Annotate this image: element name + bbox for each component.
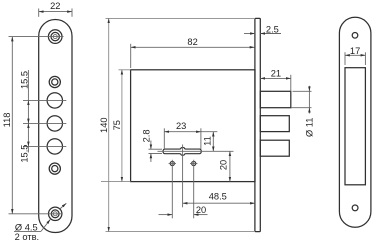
hole H3 big (47, 93, 62, 108)
dimension 21 (260, 68, 291, 91)
svg-text:2 отв.: 2 отв. (15, 232, 39, 242)
hole H1 screw hole top (48, 30, 62, 44)
hole H4 big (47, 116, 62, 131)
bolt 3 (260, 140, 289, 156)
svg-text:11: 11 (202, 136, 212, 146)
spindle bar (163, 147, 201, 155)
dimension 82 (131, 37, 255, 68)
strike plate bottom hole (352, 205, 358, 211)
dimension 17 (345, 46, 365, 65)
svg-text:Ø 11: Ø 11 (305, 118, 315, 137)
bolt 1 (260, 91, 291, 107)
svg-text:140: 140 (99, 117, 109, 133)
hole H6 small (49, 163, 60, 174)
leader diameter 4.5 (14, 203, 66, 242)
dimension 20 bottom (159, 205, 208, 215)
centerline H5 (23, 145, 66, 147)
centerline H4 (23, 122, 66, 124)
svg-text:23: 23 (176, 121, 186, 131)
dimension 15.5 upper (20, 70, 30, 123)
dimension 48.5 (183, 192, 255, 204)
dimension 2.5 (244, 24, 281, 34)
bolt 2 (260, 116, 289, 132)
screw circle right (190, 160, 197, 219)
svg-text:118: 118 (2, 113, 12, 128)
svg-text:2.8: 2.8 (142, 129, 152, 142)
bar vertical centerline (182, 145, 184, 208)
svg-text:21: 21 (271, 68, 281, 78)
dimension 2.8 (142, 129, 162, 162)
svg-text:20: 20 (219, 160, 229, 170)
svg-text:20: 20 (196, 205, 206, 215)
screw circle left (169, 160, 176, 219)
svg-text:17: 17 (350, 46, 360, 56)
hole H7 screw hole bottom (49, 207, 62, 220)
dimension 23 (164, 121, 217, 149)
dimension 140 (99, 18, 254, 231)
centerline H1 / 118 top extension (9, 36, 64, 38)
centerline H7 / 118 bottom extension (9, 213, 63, 215)
dimension 15.5 lower (20, 123, 30, 162)
hole H5 big (47, 139, 62, 154)
svg-text:75: 75 (112, 120, 122, 130)
lock body outline (131, 70, 255, 182)
svg-text:48.5: 48.5 (209, 192, 227, 202)
svg-text:2.5: 2.5 (266, 24, 279, 34)
dimension 11 (202, 132, 213, 152)
svg-text:Ø 4.5: Ø 4.5 (15, 222, 38, 232)
dimension 20 vertical (219, 151, 230, 181)
dimension diameter 11 (291, 86, 315, 137)
strike plate slot (345, 68, 365, 185)
svg-text:22: 22 (50, 1, 60, 11)
centerline H3 (23, 99, 66, 101)
dimension 118 (2, 37, 12, 214)
hole H2 small (49, 76, 60, 87)
strike plate outline (339, 17, 371, 227)
svg-text:15.5: 15.5 (20, 145, 30, 163)
dimension 22 (39, 1, 72, 17)
bar horizontal centerline (158, 150, 234, 152)
faceplate edge view strip (255, 18, 260, 231)
svg-text:15.5: 15.5 (20, 71, 30, 89)
strike plate top hole (352, 33, 358, 39)
dimension 75 (101, 70, 131, 182)
svg-text:82: 82 (187, 37, 197, 47)
left faceplate outline (39, 20, 72, 233)
